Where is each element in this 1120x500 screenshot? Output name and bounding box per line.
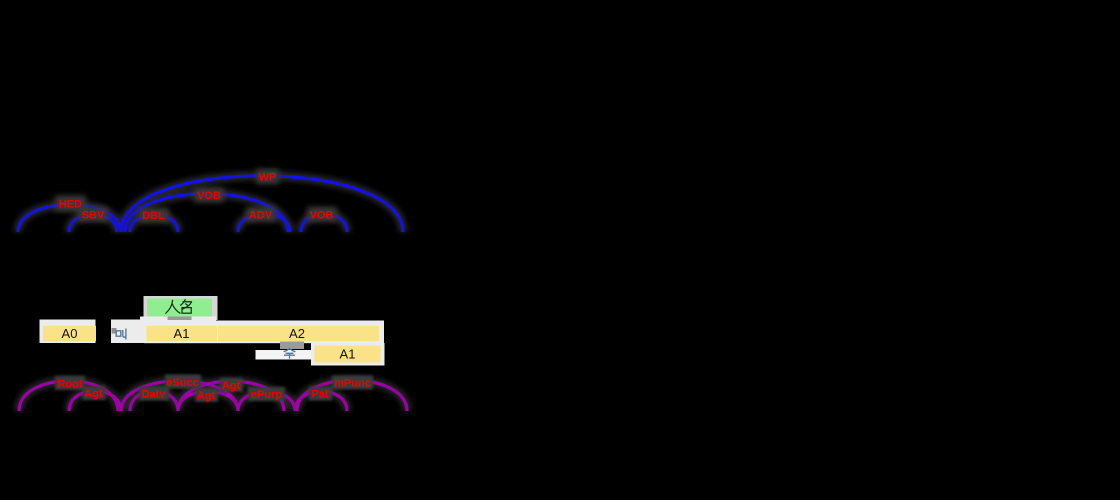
glyph 名	[181, 300, 186, 306]
wire dep arc WP (tok3 to tok8)	[121, 176, 403, 232]
svg-text:A2: A2	[289, 326, 305, 341]
SRL row 1 panel A1+A2	[144, 321, 384, 344]
NER token strip (clipped 汤姆 text)	[140, 317, 216, 322]
wire sdp arc Agt2 (tok4 to tok5)	[178, 391, 238, 411]
dependency haze underlay	[18, 176, 403, 232]
predicate glyph 拿	[284, 349, 296, 352]
svg-text:ADV: ADV	[249, 210, 273, 222]
wire sdp arc ePurp (tok5 to tok6)	[238, 391, 295, 411]
wire sdp arc eSucc (tok3 to tok5)	[121, 381, 238, 411]
svg-text:A0: A0	[62, 326, 78, 341]
wire sdp arc mPunc (tok6 to tok8)	[297, 380, 407, 411]
SRL row 2 panel A1	[311, 343, 385, 366]
wire sdp arc Agt3 (tok4 to tok6)	[178, 381, 284, 411]
label VOB	[194, 188, 224, 203]
wire dep arc ADV (tok5 to tok6)	[238, 214, 290, 232]
wire sdp arc Datv (tok3 to tok4)	[130, 391, 178, 411]
semantic dependency section	[19, 380, 407, 411]
dependency tree section	[18, 176, 403, 232]
wire sdp arc Root (tok1 to tok3)	[19, 381, 118, 411]
wire sdp arc Pat (tok6 to tok7)	[295, 391, 347, 411]
wire dep arc VOB (tok3 to tok6)	[125, 194, 288, 232]
label mPunc	[332, 376, 373, 390]
predicate glyph 叫	[116, 331, 121, 336]
svg-text:Agt: Agt	[222, 380, 241, 392]
wire dep arc DBL (tok3 to tok4)	[130, 215, 178, 232]
label Root	[55, 376, 85, 391]
label DBL	[139, 208, 169, 223]
svg-text:Agt: Agt	[197, 390, 216, 402]
svg-text:WP: WP	[259, 172, 277, 184]
label WP	[256, 169, 279, 184]
SRL row 2 predicate strip	[256, 342, 315, 360]
svg-text:A1: A1	[340, 347, 356, 362]
label Agt2	[195, 388, 218, 402]
svg-text:Datv: Datv	[142, 389, 167, 401]
glyph 人	[166, 300, 173, 313]
label Pat	[309, 387, 332, 401]
SRL row 1 predicate panel	[111, 320, 145, 344]
svg-text:VOB: VOB	[197, 190, 221, 202]
label ADV	[246, 207, 276, 222]
label SBV	[78, 207, 108, 222]
svg-text:DBL: DBL	[142, 210, 165, 222]
wire dep arc SBV (tok2 to tok3)	[69, 214, 117, 232]
label HED	[55, 196, 86, 212]
svg-text:Agt: Agt	[84, 388, 103, 400]
label eSucc	[165, 375, 201, 390]
svg-text:Root: Root	[57, 379, 82, 391]
label Agt3	[220, 378, 243, 392]
svg-text:mPunc: mPunc	[334, 378, 371, 390]
svg-text:SBV: SBV	[82, 210, 105, 222]
svg-text:eSucc: eSucc	[166, 377, 198, 389]
wire dep arc HED (tok1 to tok3)	[18, 205, 121, 232]
svg-text:VOB: VOB	[310, 210, 334, 222]
wire sdp arc Agt (tok2 to tok3)	[69, 391, 121, 411]
sdp haze underlay	[19, 380, 407, 411]
NER box 人名	[144, 296, 218, 320]
SRL row 1 panel A0	[40, 320, 97, 344]
svg-text:ePurp: ePurp	[251, 389, 282, 401]
svg-text:A1: A1	[174, 326, 190, 341]
label ePurp	[248, 387, 285, 401]
wire dep arc VOB2 (tok6 to tok7)	[301, 214, 347, 232]
label Agt	[83, 386, 106, 400]
svg-text:Pat: Pat	[311, 389, 328, 401]
label VOB2	[307, 207, 337, 222]
label Datv	[139, 387, 169, 401]
